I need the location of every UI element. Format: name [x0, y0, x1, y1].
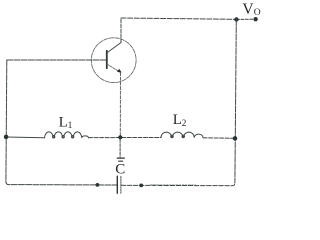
label Vo: [242, 1, 260, 18]
wire: bottom rail right: [121, 183, 235, 186]
ground: bar 1: [117, 157, 124, 159]
wire: bottom rail left: [6, 182, 117, 186]
inductor L1: [45, 132, 89, 138]
node: bottom-right dot: [139, 184, 143, 188]
svg-text:1: 1: [68, 121, 73, 131]
faint print bleed on bottom wire: [150, 183, 196, 185]
node: tank centre tap: [118, 135, 122, 139]
svg-text:O: O: [254, 8, 261, 18]
label L1: [59, 115, 73, 132]
label C: [115, 162, 125, 178]
wire: right rail: [235, 20, 236, 183]
node: tank right junction: [233, 136, 238, 141]
wire: tank row left segment: [6, 136, 44, 139]
transistor Q1: circle: [91, 38, 136, 83]
wire: top rail from collector corner to output junction: [121, 18, 236, 19]
transistor Q1: collector lead vertical: [120, 18, 122, 43]
svg-text:L: L: [173, 112, 182, 128]
wire: ground lead from centre tap: [119, 139, 121, 157]
transistor Q1: base bar: [106, 51, 108, 68]
transistor Q1: emitter lead: [107, 64, 120, 72]
label L2: [173, 112, 187, 129]
wire: output stub: [237, 18, 256, 20]
wire: tank row right segment: [203, 137, 235, 140]
node: tank left junction: [4, 135, 9, 140]
transistor Q1: emitter arrow: [117, 69, 122, 73]
svg-text:V: V: [242, 1, 254, 18]
transistor Q1: collector lead diagonal: [107, 43, 121, 53]
svg-text:2: 2: [182, 119, 187, 129]
inductor L2 curls: [171, 135, 174, 138]
ground: bar 2: [119, 160, 123, 162]
svg-text:C: C: [115, 162, 125, 178]
node: output terminal: [253, 17, 257, 21]
wire: emitter down to tank tap: [119, 73, 121, 137]
node: top-right junction: [234, 17, 238, 21]
inductor L2: [161, 132, 203, 138]
node: bottom-left dot: [96, 183, 100, 187]
wire: base lead: [7, 59, 106, 61]
wire: left rail: [5, 60, 8, 181]
wire: tank row middle segment: [89, 137, 161, 139]
capacitor C: left plate: [116, 176, 118, 193]
inductor L1 curls: [52, 136, 54, 138]
svg-text:L: L: [59, 115, 68, 131]
capacitor C: right plate: [120, 176, 122, 193]
